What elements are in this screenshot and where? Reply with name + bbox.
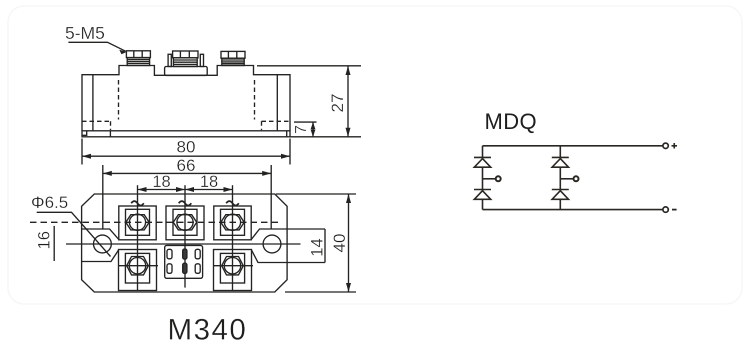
tilde mark T1 <box>131 201 144 205</box>
body octagon top view <box>82 194 288 292</box>
hidden line bottom left <box>82 121 111 130</box>
dim 27 <box>328 66 351 137</box>
DC terminal T4 bottom-left (top view) <box>119 250 159 291</box>
tilde mark T3 <box>226 201 239 205</box>
right channel cut <box>251 229 287 263</box>
svg-text:27: 27 <box>328 94 347 113</box>
pin right of middle post <box>200 54 203 66</box>
dim 7 leader <box>294 121 317 123</box>
DC terminal T5 bottom-right (top view) <box>214 250 254 291</box>
svg-text:Φ6.5: Φ6.5 <box>31 193 68 212</box>
svg-text:66: 66 <box>177 156 196 175</box>
terminal post P3 (front view right) <box>221 51 245 65</box>
slot hollow bottom-left <box>167 264 172 274</box>
wire branch 2 vertical <box>559 146 561 210</box>
diode D3 (branch2 upper) <box>552 157 569 167</box>
flange inner edge right <box>276 75 278 131</box>
label dia 6.5 <box>31 193 68 212</box>
terminal + <box>663 143 677 149</box>
svg-text:80: 80 <box>177 138 196 157</box>
slot filled bottom-middle <box>183 263 187 273</box>
diode D4 (branch2 lower) <box>552 190 569 200</box>
hole centerline horizontal (row divider) <box>66 243 301 245</box>
svg-text:16: 16 <box>36 231 54 249</box>
dim 80 extension lines <box>82 139 290 165</box>
slot hollow top-right <box>195 249 200 258</box>
wire branch 1 vertical <box>482 146 484 210</box>
leader dia 6.5 <box>37 212 111 256</box>
svg-text:5-M5: 5-M5 <box>65 23 105 43</box>
column centerline right <box>232 185 234 291</box>
diode D1 (branch1 upper) <box>474 157 491 167</box>
svg-text:MDQ: MDQ <box>485 109 538 134</box>
AC terminal T1 top-left (top view) <box>119 206 156 240</box>
dashed centerline top row <box>30 221 281 223</box>
slot hollow top-left <box>167 249 172 258</box>
dim 18 right <box>185 173 233 192</box>
dim 66 extension lines (down to top view holes) <box>103 165 271 229</box>
mounting hole right <box>263 235 281 253</box>
pedestal under middle post <box>165 67 208 76</box>
dim 66 <box>103 156 271 176</box>
svg-text:40: 40 <box>330 234 349 253</box>
AC terminal T3 top-right (top view) <box>214 206 251 240</box>
dim 40 <box>330 194 351 292</box>
terminal - <box>663 207 677 212</box>
baseplate <box>82 131 290 137</box>
AC terminal T2 top-middle (top view) <box>166 206 204 240</box>
dim 40 extension lines <box>276 194 356 292</box>
slot hollow bottom-right <box>195 264 200 274</box>
mounting hole left <box>94 235 112 253</box>
column centerline left <box>137 185 139 291</box>
label 5-M5 <box>65 23 105 43</box>
leader 5-M5 <box>68 42 126 54</box>
slot filled top-middle <box>183 249 187 259</box>
wire - bottom rail <box>483 209 663 211</box>
svg-text:18: 18 <box>200 173 218 191</box>
node AC2 stub <box>560 176 578 181</box>
flange inner edge left <box>92 75 94 131</box>
svg-text:18: 18 <box>152 173 170 191</box>
svg-text:M340: M340 <box>168 314 248 347</box>
svg-text:14: 14 <box>309 238 327 256</box>
tilde mark T2 <box>179 201 192 205</box>
label MDQ <box>485 109 538 134</box>
svg-text:7: 7 <box>293 125 310 134</box>
caption M340 <box>168 314 248 347</box>
dim 14 extension lines <box>287 229 325 263</box>
column centerline middle <box>184 185 186 287</box>
terminal post P1 (front view left) <box>126 51 150 66</box>
dim 16 <box>36 226 55 261</box>
pin left of middle post <box>168 54 171 66</box>
terminal post P2 (front view middle) <box>173 51 198 67</box>
dim 7 <box>293 122 315 137</box>
wire + top rail <box>483 145 663 147</box>
left channel cut <box>82 229 119 262</box>
diode D2 (branch1 lower) <box>474 190 491 200</box>
hidden line right vertical <box>254 80 256 120</box>
body outline front view <box>82 66 290 131</box>
dim 27 leader bottom (plate bottom extended) <box>290 136 361 138</box>
dim 27 leader top <box>257 65 361 67</box>
center connector block <box>165 245 203 278</box>
node AC1 stub <box>483 176 501 181</box>
hidden line left vertical <box>118 80 120 120</box>
dim 14 <box>309 229 327 263</box>
hidden line bottom right <box>262 121 291 130</box>
dim 80 <box>82 138 290 159</box>
dim 18 left <box>138 173 186 192</box>
